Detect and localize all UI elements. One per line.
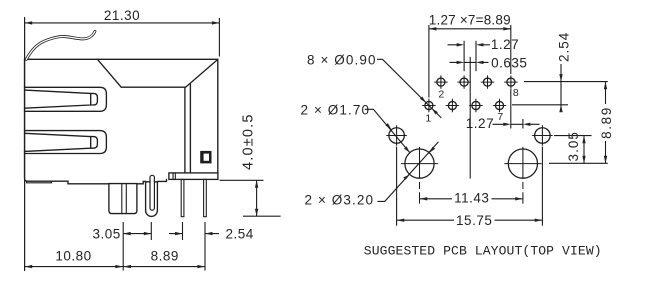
- flange notch line 2: [174, 173, 176, 180]
- arrow leader 1.70: [385, 123, 391, 130]
- side square detail outer: [200, 151, 211, 164]
- arrows 0.635: [457, 61, 465, 64]
- front flange: [169, 173, 218, 180]
- slot 2 outer: [25, 131, 107, 154]
- arrows 8.89R: [604, 82, 607, 90]
- hole8 column line: [510, 89, 512, 129]
- svg-text:8.89: 8.89: [151, 248, 179, 263]
- svg-text:10.80: 10.80: [55, 248, 91, 263]
- arrows 21.30: [25, 21, 33, 24]
- hole 8: [507, 78, 515, 86]
- hole 4: [460, 78, 468, 86]
- svg-text:1.27: 1.27: [491, 37, 519, 52]
- text 11.43: [452, 192, 492, 204]
- dim 3.05R ext top: [554, 135, 592, 137]
- arrow leader 3.20 near: [403, 175, 410, 180]
- PCB pin 1: [181, 179, 184, 216]
- svg-text:8 × Ø0.90: 8 × Ø0.90: [307, 52, 377, 67]
- dim 15.75 line: [397, 219, 542, 221]
- svg-text:3.05: 3.05: [566, 131, 581, 161]
- front face line A: [184, 87, 186, 173]
- dim 4.0 seating extension: [220, 179, 264, 181]
- medium hole right cross: [532, 125, 553, 146]
- hole crosses small bottom row: [422, 99, 506, 112]
- large hole right: [508, 149, 537, 178]
- dim 3.05 line: [123, 233, 151, 235]
- dim 3.05 extension left: [122, 222, 124, 271]
- dim 8.89R ext bottom: [549, 162, 608, 164]
- text 8.89 right rotated: [601, 104, 613, 141]
- hole 7: [495, 101, 503, 109]
- dim 2.54L tails: [169, 233, 219, 235]
- PCB pin 2: [204, 179, 207, 216]
- dim 3.05R line: [583, 136, 585, 163]
- svg-text:SUGGESTED PCB LAYOUT(TOP VIEW): SUGGESTED PCB LAYOUT(TOP VIEW): [364, 243, 602, 258]
- dim 21.30 line: [25, 22, 220, 24]
- arrows 11.43: [420, 197, 428, 200]
- arrows 15.75: [397, 219, 405, 222]
- dim 8.89 top ext left: [428, 25, 430, 98]
- top chamfer lines: [97, 59, 217, 87]
- hole 2: [437, 78, 445, 86]
- arrows 2.54L: [175, 232, 183, 235]
- svg-text:2 × Ø3.20: 2 × Ø3.20: [305, 192, 375, 207]
- dim 21.30 right extension: [218, 18, 220, 57]
- dim 15.75 ext right: [541, 147, 543, 226]
- side square detail inner: [204, 154, 209, 161]
- arrows 4.0: [255, 180, 258, 188]
- arrows 2.54R: [559, 74, 562, 82]
- svg-text:0.635: 0.635: [491, 56, 527, 71]
- hole 1: [425, 101, 433, 109]
- slot 2 contact fork: [25, 133, 98, 151]
- large hole left cross: [401, 147, 438, 204]
- hole 3: [448, 101, 456, 109]
- hole crosses small top row: [434, 75, 517, 88]
- left extension line / body left edge column: [24, 18, 26, 271]
- large hole left: [405, 149, 434, 178]
- dim 4.0 line: [256, 180, 258, 216]
- dim 8.89R line: [605, 82, 607, 163]
- dim 8.89 top line: [429, 28, 511, 30]
- dim 11.43 line: [420, 198, 523, 200]
- medium hole left: [389, 128, 405, 144]
- post inner line 1: [121, 184, 123, 214]
- text 15.75: [454, 214, 495, 226]
- dim 10.80 / 8.89 line: [25, 266, 205, 268]
- arrows 10.80: [25, 265, 33, 268]
- arrows 3.05: [123, 232, 131, 235]
- dim 1.27B tick: [522, 119, 524, 129]
- dim 2.54L ext left: [182, 222, 184, 240]
- slot 1 contact fork: [25, 90, 98, 108]
- svg-text:2: 2: [438, 89, 444, 101]
- arrows 8.89L: [124, 265, 132, 268]
- dim 15.75 ext left: [396, 147, 398, 226]
- dim 2.54R ext top: [524, 81, 608, 83]
- press-fit pin outer U: [146, 182, 158, 217]
- arrows 8.89 top: [429, 27, 437, 30]
- press-fit pin cap: [150, 175, 154, 210]
- svg-text:7: 7: [497, 111, 503, 123]
- arrows 1.27 top: [457, 43, 465, 46]
- arrows 1.27B: [503, 123, 511, 126]
- svg-text:1: 1: [425, 113, 431, 125]
- arrow leader 3.20 far: [429, 147, 435, 153]
- arrows 3.05R: [582, 136, 585, 144]
- medium hole right: [535, 128, 551, 144]
- svg-text:8.89: 8.89: [599, 106, 614, 139]
- leader 3.20: [378, 142, 439, 202]
- dim 1.27 top ext right: [475, 41, 477, 71]
- bottom tab: [27, 181, 52, 183]
- svg-text:15.75: 15.75: [456, 213, 492, 228]
- dim 0.635 tails: [450, 61, 489, 63]
- post inner line 2: [125, 184, 127, 214]
- connector body outline: [25, 59, 218, 184]
- dim 8.89 top ext right: [510, 25, 512, 74]
- svg-text:1.27 ×7=8.89: 1.27 ×7=8.89: [429, 13, 511, 28]
- medium hole left cross: [386, 125, 407, 146]
- svg-text:4.0±0.5: 4.0±0.5: [240, 113, 256, 170]
- flange notch line 1: [172, 173, 174, 180]
- slot 1 outer: [25, 87, 107, 111]
- dim 2.54R ext bottom: [512, 104, 568, 106]
- svg-text:8: 8: [513, 87, 519, 99]
- svg-text:2.54: 2.54: [226, 227, 254, 242]
- pcb centerline: [469, 57, 471, 179]
- svg-text:2 × Ø1.70: 2 × Ø1.70: [301, 102, 371, 117]
- svg-text:2.54: 2.54: [556, 32, 571, 62]
- arrow leader 0.90: [420, 97, 426, 103]
- svg-text:11.43: 11.43: [454, 190, 489, 205]
- leader 1.70: [365, 109, 410, 152]
- svg-text:21.30: 21.30: [104, 8, 140, 23]
- leader 0.90: [377, 59, 441, 118]
- dim 1.27B tails: [493, 123, 540, 125]
- dim 1.27 top ext left: [463, 41, 465, 71]
- hole 5: [472, 101, 480, 109]
- latch wire: [26, 31, 95, 59]
- svg-text:3.05: 3.05: [93, 227, 121, 242]
- dim 1.27 top tails: [448, 44, 491, 46]
- dim 4.0 pin-end extension: [243, 215, 281, 217]
- large hole right cross: [504, 147, 541, 204]
- hole 6: [483, 78, 491, 86]
- front face line B: [189, 84, 191, 173]
- standoff post: [109, 184, 137, 214]
- dim 2.54R line: [560, 64, 562, 112]
- dim 2.54L ext right: [204, 222, 206, 271]
- dim 3.05 extension right: [150, 222, 152, 240]
- svg-text:1.27: 1.27: [466, 116, 494, 131]
